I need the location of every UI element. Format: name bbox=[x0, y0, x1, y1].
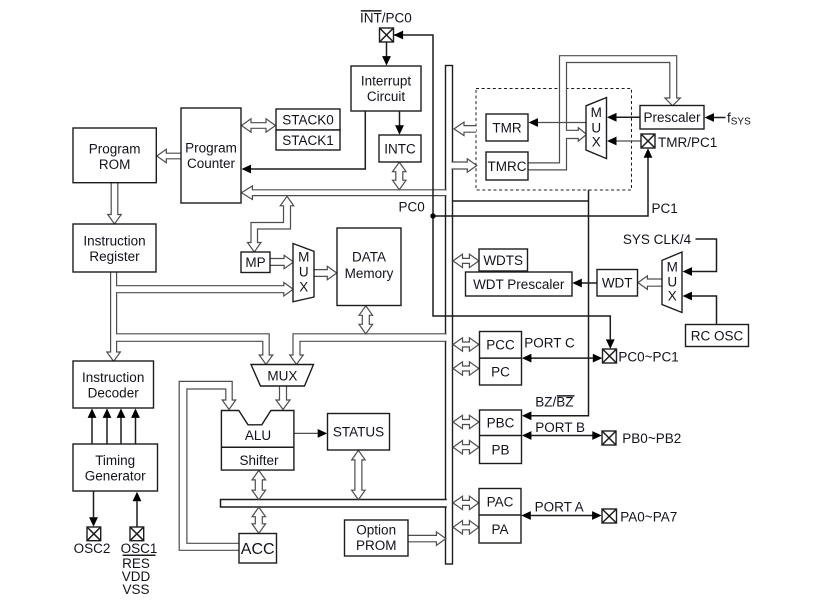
svg-text:PORT A: PORT A bbox=[535, 499, 584, 514]
mux MP/IR MUX bbox=[293, 244, 314, 302]
svg-text:OSC2: OSC2 bbox=[74, 541, 111, 556]
label SYS CLK/4 bbox=[623, 232, 692, 247]
data path bus (horizontal) bbox=[221, 500, 447, 508]
svg-text:Counter: Counter bbox=[187, 156, 236, 171]
register STACK0 bbox=[276, 109, 340, 130]
svg-text:M: M bbox=[667, 260, 678, 275]
box Program Counter bbox=[181, 108, 241, 203]
wire IR branch to MP MUX (hollow right arrow) bbox=[116, 282, 293, 296]
wire bus to PC1 drop line (horizontal) bbox=[453, 200, 589, 202]
label BZ/BZ with overline bbox=[535, 395, 574, 410]
svg-text:PC: PC bbox=[491, 364, 510, 379]
wire Program Counter to Program ROM (hollow left arrow) bbox=[157, 149, 181, 163]
svg-text:Program: Program bbox=[185, 141, 237, 156]
wire TMR to bus (hollow left arrow) bbox=[454, 122, 476, 135]
svg-text:VSS: VSS bbox=[122, 582, 149, 597]
svg-text:PB: PB bbox=[491, 442, 509, 457]
wire SYS CLK/4 to WDT MUX bbox=[683, 239, 717, 276]
wire INT pin to Interrupt Circuit bbox=[382, 42, 391, 66]
svg-text:INT/PC0: INT/PC0 bbox=[360, 11, 412, 26]
label PA0~PA7 bbox=[620, 509, 677, 524]
wire PC1 branch from junction to TMR/PC1 pin bbox=[433, 148, 652, 216]
wire INT/PC0 pin net: right of pin, down, across to PC0~PC1 pin drop bbox=[394, 31, 615, 349]
svg-text:BZ/BZ: BZ/BZ bbox=[535, 395, 573, 410]
box Prescaler bbox=[640, 106, 704, 130]
svg-text:TMR: TMR bbox=[492, 120, 521, 135]
svg-text:ACC: ACC bbox=[241, 541, 275, 558]
svg-text:Timing: Timing bbox=[95, 453, 135, 468]
wire ACC to ALU feedback loop (hollow, arrow into ALU top) bbox=[179, 381, 239, 550]
box Timing Generator bbox=[73, 444, 158, 491]
label VSS bbox=[122, 582, 149, 597]
mux TMR MUX bbox=[586, 98, 607, 159]
svg-text:Option: Option bbox=[356, 522, 396, 537]
svg-text:U: U bbox=[299, 265, 309, 280]
svg-text:Memory: Memory bbox=[345, 266, 394, 281]
mux WDT MUX bbox=[662, 252, 682, 313]
svg-text:MUX: MUX bbox=[267, 368, 297, 383]
register MP bbox=[241, 252, 270, 273]
pin PA0~PA7 bbox=[602, 509, 617, 523]
wire Shifter to data bus (hollow double arrow vertical) bbox=[252, 470, 265, 499]
label PC0~PC1 bbox=[618, 349, 678, 364]
wire Option PROM to bus (hollow right arrow) bbox=[408, 532, 446, 546]
svg-text:WDT: WDT bbox=[602, 276, 633, 291]
svg-text:INTC: INTC bbox=[384, 141, 416, 156]
wire ACC to data bus (hollow double arrow vertical) bbox=[252, 507, 265, 533]
svg-text:Shifter: Shifter bbox=[239, 453, 279, 468]
svg-text:PAC: PAC bbox=[487, 494, 514, 509]
wire DATA Memory to bus wire (hollow double arrow vertical) bbox=[359, 306, 373, 334]
pin PB0~PB2 bbox=[602, 431, 616, 445]
wire bus to PC register (hollow double arrow) bbox=[453, 362, 479, 376]
register TMR bbox=[486, 114, 528, 141]
wire MP MUX to DATA Memory (hollow right arrow) bbox=[314, 266, 337, 280]
wire PORT B line (double solid arrow to PB0~PB2 pin) bbox=[522, 431, 602, 440]
wire Interrupt Circuit to INTC bbox=[395, 111, 404, 135]
svg-text:Register: Register bbox=[89, 249, 140, 264]
register TMRC bbox=[486, 152, 528, 180]
wire PORT A line (double solid arrow to PA0~PA7 pin) bbox=[521, 511, 601, 520]
svg-text:WDT Prescaler: WDT Prescaler bbox=[473, 277, 565, 292]
svg-text:ALU: ALU bbox=[245, 428, 271, 443]
svg-text:RC OSC: RC OSC bbox=[691, 328, 744, 343]
label RES bbox=[122, 556, 150, 571]
wire timer section down to PBC (BZ signal) bbox=[522, 190, 589, 420]
wire INTC to PC-bus wire (hollow double arrow) bbox=[393, 162, 407, 190]
svg-text:STACK1: STACK1 bbox=[282, 133, 334, 148]
svg-text:U: U bbox=[591, 120, 601, 135]
svg-text:PC0~PC1: PC0~PC1 bbox=[618, 349, 678, 364]
svg-text:X: X bbox=[592, 135, 601, 150]
wire bus to PAC (hollow double arrow) bbox=[453, 496, 479, 510]
svg-text:Interrupt: Interrupt bbox=[361, 74, 412, 89]
label PC0 bbox=[399, 200, 425, 215]
pin INT/PC0 bbox=[380, 28, 394, 42]
wire PORT C line (double solid arrow to PC0~PC1 pin) bbox=[522, 354, 602, 363]
svg-text:Program: Program bbox=[89, 142, 141, 157]
svg-text:STATUS: STATUS bbox=[333, 425, 384, 440]
pin PC0~PC1 bbox=[603, 349, 617, 363]
register INTC bbox=[379, 135, 421, 162]
svg-text:STACK0: STACK0 bbox=[282, 112, 334, 127]
wire IR branch to lower MUX left input (hollow down arrow) bbox=[116, 334, 273, 365]
wire TMRC feedback loop to Prescaler with branch to TMR MUX select (hollow) bbox=[529, 56, 681, 170]
wire WDT to WDT Prescaler bbox=[572, 279, 597, 288]
svg-text:X: X bbox=[668, 289, 677, 304]
box Program ROM bbox=[73, 128, 156, 183]
svg-text:PA0~PA7: PA0~PA7 bbox=[620, 509, 677, 524]
node junction dot PC0 net bbox=[430, 213, 435, 218]
register ACC bbox=[239, 534, 277, 564]
svg-text:Circuit: Circuit bbox=[367, 89, 406, 104]
label fSYS bbox=[727, 111, 751, 128]
wire bus to TMRC (hollow right arrow, merges from bus) bbox=[452, 159, 477, 173]
wire RC OSC to WDT MUX bbox=[683, 292, 717, 325]
wire lower MUX to ALU (hollow down arrow) bbox=[276, 386, 290, 410]
box DATA Memory bbox=[337, 228, 401, 306]
svg-text:Decoder: Decoder bbox=[88, 385, 140, 400]
svg-text:PORT C: PORT C bbox=[524, 335, 575, 350]
label PB0~PB2 bbox=[622, 431, 681, 446]
wire bus to PBC (hollow double arrow) bbox=[453, 415, 479, 429]
svg-text:U: U bbox=[667, 275, 677, 290]
svg-text:Generator: Generator bbox=[85, 468, 146, 483]
wire bus to WDTS (hollow double arrow) bbox=[453, 254, 479, 268]
label INT/PC0 with overline on INT bbox=[360, 11, 412, 26]
mux lower MUX (ALU operand) bbox=[251, 365, 314, 387]
wire MP-path branch from PC bus wire down into MP (hollow, arrowheads both ends) bbox=[248, 196, 294, 252]
svg-text:TMR/PC1: TMR/PC1 bbox=[658, 135, 717, 150]
wire fSYS to Prescaler bbox=[705, 113, 726, 122]
dashed box timer section bbox=[476, 89, 632, 191]
svg-text:OSC1: OSC1 bbox=[121, 541, 158, 556]
svg-text:X: X bbox=[299, 280, 308, 295]
label PORT A bbox=[535, 499, 584, 514]
system bus (vertical) bbox=[446, 66, 453, 565]
label VDD bbox=[122, 569, 151, 584]
box Option PROM bbox=[345, 520, 409, 556]
wire PC to data-memory-bus (hollow, with left arrow into Program Counter) bbox=[241, 186, 446, 200]
wire TMR/PC1 pin to TMR MUX bbox=[607, 137, 641, 146]
label PORT B bbox=[535, 420, 585, 435]
label OSC2 bbox=[74, 541, 111, 556]
label PORT C bbox=[524, 335, 575, 350]
wire bus to PCC (hollow double arrow) bbox=[453, 338, 479, 352]
svg-text:PROM: PROM bbox=[356, 538, 397, 553]
wire ALU to STATUS bbox=[294, 429, 327, 438]
box STATUS bbox=[328, 414, 390, 451]
wire bus to lower MUX right input (hollow down arrow, merges into system bus) bbox=[290, 334, 447, 365]
box Interrupt Circuit bbox=[351, 66, 421, 111]
svg-text:PCC: PCC bbox=[486, 338, 515, 353]
register PAC / PA bbox=[479, 489, 521, 544]
alu ALU / Shifter bbox=[221, 411, 294, 471]
wire Prescaler to TMR MUX bbox=[607, 113, 640, 122]
register WDTS bbox=[479, 249, 528, 271]
wire bus to PA register (hollow double arrow) bbox=[453, 521, 479, 535]
label PC1 bbox=[652, 201, 678, 216]
label OSC1 with underline bbox=[121, 541, 158, 556]
box WDT bbox=[597, 270, 638, 297]
register PCC / PC bbox=[480, 332, 522, 386]
wire IR to Instruction Decoder (hollow, down arrow) bbox=[107, 273, 121, 362]
svg-text:PBC: PBC bbox=[487, 416, 515, 431]
pin OSC1 bbox=[130, 527, 144, 541]
register STACK1 bbox=[276, 130, 340, 150]
svg-text:TMRC: TMRC bbox=[488, 159, 527, 174]
wire Program ROM to Instruction Register (hollow down arrow) bbox=[108, 183, 122, 224]
svg-text:PORT B: PORT B bbox=[535, 420, 585, 435]
svg-text:WDTS: WDTS bbox=[483, 253, 523, 268]
svg-text:DATA: DATA bbox=[352, 249, 386, 264]
svg-text:Instruction: Instruction bbox=[83, 233, 145, 248]
svg-text:Prescaler: Prescaler bbox=[643, 110, 701, 125]
svg-text:SYS CLK/4: SYS CLK/4 bbox=[623, 232, 692, 247]
box RC OSC bbox=[686, 325, 749, 347]
wire TMR MUX output to TMR bbox=[529, 118, 587, 127]
svg-text:M: M bbox=[591, 105, 602, 120]
box WDT Prescaler bbox=[466, 272, 573, 296]
wire Timing Generator to OSC2 pin bbox=[89, 492, 98, 527]
wire Timing Generator to Instruction Decoder (4 arrows) bbox=[88, 408, 140, 443]
pin TMR/PC1 bbox=[641, 134, 655, 148]
wire Interrupt Circuit to Program Counter bbox=[242, 111, 366, 173]
wire MP to MP MUX (hollow right arrow) bbox=[270, 255, 294, 269]
box Instruction Decoder bbox=[73, 361, 154, 408]
wire WDT MUX to WDT (hollow left arrow) bbox=[638, 276, 663, 290]
svg-text:M: M bbox=[298, 250, 309, 265]
svg-text:PA: PA bbox=[491, 522, 508, 537]
svg-text:MP: MP bbox=[245, 255, 265, 270]
svg-text:PB0~PB2: PB0~PB2 bbox=[622, 431, 681, 446]
svg-text:Instruction: Instruction bbox=[82, 370, 144, 385]
wire PC to STACK (hollow double arrow) bbox=[242, 119, 276, 133]
box Instruction Register bbox=[73, 224, 156, 272]
svg-text:ROM: ROM bbox=[99, 157, 131, 172]
register PBC / PB bbox=[480, 410, 522, 464]
svg-text:PC0: PC0 bbox=[399, 200, 425, 215]
pin OSC2 bbox=[87, 527, 101, 541]
wire OSC1 pin to Timing Generator bbox=[133, 492, 142, 527]
wire STATUS to data bus (hollow double arrow vertical) bbox=[352, 450, 366, 499]
svg-text:PC1: PC1 bbox=[652, 201, 678, 216]
label TMR/PC1 bbox=[658, 135, 717, 150]
wire bus to PB register (hollow double arrow) bbox=[453, 440, 479, 454]
